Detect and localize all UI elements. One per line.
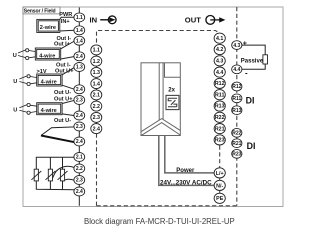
- terminal R22: [214, 112, 225, 122]
- Sensor / Field label: [23, 7, 60, 15]
- svg-text:DI: DI: [246, 95, 255, 105]
- svg-text:R21: R21: [215, 126, 225, 132]
- terminal 2.3 sensor b: [74, 122, 85, 131]
- svg-text:2.1: 2.1: [76, 155, 83, 161]
- terminal 1.4: [91, 79, 102, 89]
- power wire left (N): [159, 136, 215, 186]
- device right terminal column: [214, 33, 225, 203]
- wire sensor column bottom stub: [78, 196, 80, 206]
- wire 2-wire top to 1.1: [60, 17, 75, 19]
- svg-text:R11: R11: [215, 92, 224, 98]
- terminal R11 ext: [232, 94, 242, 103]
- svg-text:R12: R12: [215, 81, 225, 87]
- wire sensor column top stub: [78, 8, 80, 13]
- terminal 2.3 sensor c: [74, 176, 85, 185]
- svg-text:PWR: PWR: [59, 12, 72, 18]
- wire segments sensor column: [78, 22, 80, 187]
- terminal 4.1: [214, 33, 225, 43]
- svg-text:IN: IN: [90, 15, 98, 24]
- terminal 2.2: [91, 101, 102, 111]
- wire top bus to 2.1: [36, 157, 74, 169]
- svg-text:2.3: 2.3: [76, 178, 83, 184]
- svg-text:4.1: 4.1: [216, 36, 223, 42]
- svg-text:2-wire: 2-wire: [40, 25, 56, 31]
- svg-text:R23: R23: [232, 152, 241, 158]
- OUT symbol: [185, 16, 226, 25]
- terminal 2.4: [91, 124, 102, 134]
- svg-text:2.4: 2.4: [76, 54, 83, 60]
- potentiometer wiper arrow: [41, 127, 76, 142]
- outer frame: [23, 7, 283, 207]
- svg-text:OUT: OUT: [185, 16, 201, 25]
- sensor terminal ellipses column: [74, 13, 85, 196]
- terminal 2.3: [91, 112, 102, 122]
- svg-text:R12: R12: [232, 84, 241, 90]
- wire 4-wire3 bottom to 2.4: [62, 114, 75, 116]
- 2-wire transmitter box: [37, 19, 60, 32]
- svg-text:DI: DI: [247, 141, 256, 151]
- wire bottom bus to 2.4: [36, 181, 75, 190]
- terminal 2.4 sensor b: [74, 85, 85, 94]
- RTD resistor R2: [46, 169, 56, 181]
- svg-text:U: U: [13, 79, 17, 85]
- svg-text:1.3: 1.3: [76, 65, 83, 71]
- wire 2.2 to middle tap: [50, 166, 74, 181]
- svg-text:+: +: [243, 41, 247, 48]
- svg-text:L/+: L/+: [216, 171, 224, 177]
- svg-text:4.4: 4.4: [233, 67, 240, 73]
- svg-text:U: U: [13, 108, 17, 114]
- terminal R12 ext: [232, 82, 242, 91]
- svg-text:1.4: 1.4: [93, 81, 100, 87]
- terminal R12: [214, 78, 225, 88]
- terminal R22 ext: [232, 128, 242, 137]
- isolation channel: [158, 63, 160, 121]
- svg-text:1.1: 1.1: [93, 48, 100, 54]
- svg-text:R13: R13: [232, 108, 241, 114]
- terminal 1.3 sensor: [74, 63, 85, 72]
- svg-text:2.4: 2.4: [76, 189, 83, 195]
- U source for 4-wire 3: [13, 103, 37, 114]
- svg-text:1.1: 1.1: [76, 15, 83, 21]
- IN symbol: [90, 15, 117, 24]
- terminal R13 ext: [232, 106, 242, 115]
- terminal 2.4 sensor d: [74, 137, 85, 146]
- 4-wire box 2: [37, 74, 62, 86]
- svg-text:R11: R11: [232, 96, 241, 102]
- svg-text:4.2: 4.2: [216, 47, 223, 53]
- svg-text:Sensor / Field: Sensor / Field: [24, 9, 56, 15]
- svg-text:2.3: 2.3: [93, 115, 100, 121]
- svg-text:R22: R22: [215, 115, 225, 121]
- svg-text:1.4: 1.4: [76, 38, 83, 44]
- terminal 2.4 sensor: [74, 52, 85, 61]
- terminal R21 ext: [232, 139, 242, 148]
- U source for 4-wire 1: [13, 49, 36, 60]
- terminal N/-: [214, 180, 225, 190]
- svg-text:4.4: 4.4: [216, 70, 223, 76]
- svg-text:2.3: 2.3: [76, 98, 83, 104]
- svg-text:1.3: 1.3: [93, 70, 100, 76]
- terminal R23 ext: [232, 149, 242, 158]
- dashed segment R23 to L/+: [219, 146, 221, 168]
- svg-text:R23: R23: [215, 138, 225, 144]
- svg-text:Out U-: Out U-: [54, 118, 71, 124]
- svg-text:R22: R22: [232, 131, 241, 137]
- terminal 1.4 sensor b: [74, 36, 85, 45]
- svg-text:IN+: IN+: [61, 19, 71, 25]
- wire middle branch: [49, 157, 51, 189]
- wire 4-wire1 bottom to 2.4: [61, 57, 75, 60]
- dashed device boundary left+top+bottom: [97, 31, 237, 206]
- svg-text:1.2: 1.2: [93, 59, 100, 65]
- dashed device boundary right vertical: [236, 7, 238, 206]
- terminal 1.3: [91, 67, 102, 77]
- device left terminal column: [91, 45, 102, 134]
- module block U1: [141, 63, 180, 136]
- svg-text:R13: R13: [215, 104, 225, 110]
- top right cell: [165, 63, 181, 78]
- wire 4-wire3 top to 2.3: [62, 100, 75, 103]
- terminal 1.1: [91, 45, 102, 55]
- terminal 2.2 sensor: [74, 164, 85, 173]
- svg-text:Power: Power: [176, 168, 195, 174]
- passive loop wires: [241, 45, 265, 69]
- outer right terminal column: [232, 41, 242, 159]
- svg-text:2.4: 2.4: [76, 139, 83, 145]
- svg-text:4-wire: 4-wire: [41, 79, 57, 85]
- svg-text:4.3: 4.3: [216, 59, 223, 65]
- svg-text:2.4: 2.4: [76, 113, 83, 119]
- terminal R11: [214, 90, 225, 100]
- relay symbol 2x: [166, 87, 179, 109]
- terminal 2.1: [91, 90, 102, 100]
- 4-wire box 1: [35, 48, 60, 60]
- svg-text:2x: 2x: [168, 87, 175, 93]
- wire 4-wire1 top to 1.4: [61, 41, 75, 49]
- RTD resistor network wires: [36, 157, 75, 190]
- power wire right (L): [165, 136, 215, 173]
- svg-text:4-wire: 4-wire: [41, 108, 57, 114]
- terminal 4.4 ext: [232, 65, 242, 74]
- terminal 4.3: [214, 56, 225, 66]
- wire 4-wire2 top to 1.3: [62, 67, 75, 75]
- svg-text:2.1: 2.1: [93, 93, 100, 99]
- terminal 2.4 sensor c: [74, 111, 85, 120]
- terminal 1.2: [91, 56, 102, 66]
- U source for 4-wire 2: [13, 75, 37, 86]
- wire 2.3 to right tap: [63, 179, 75, 181]
- svg-text:2.3: 2.3: [76, 124, 83, 130]
- RTD resistor R1: [31, 169, 41, 181]
- wire 4-wire2 bottom to 2.4: [62, 85, 75, 89]
- svg-text:2.2: 2.2: [93, 104, 100, 110]
- svg-text:1.4: 1.4: [76, 28, 83, 34]
- chevron band: [142, 119, 181, 132]
- svg-text:Block diagram FA-MCR-D-TUI-UI-: Block diagram FA-MCR-D-TUI-UI-2REL-UP: [84, 217, 235, 226]
- svg-text:24V...230V AC/DC: 24V...230V AC/DC: [160, 179, 212, 186]
- wire right branch: [62, 157, 64, 189]
- 4-wire box 3: [37, 103, 62, 115]
- wire 2-wire bottom to 1.4: [60, 29, 75, 32]
- terminal 2.3 sensor: [74, 96, 85, 105]
- svg-text:2.4: 2.4: [76, 87, 83, 93]
- svg-text:Out U-: Out U-: [54, 90, 71, 96]
- svg-text:-: -: [245, 68, 248, 77]
- terminal R13: [214, 101, 225, 111]
- terminal 1.1 sensor: [74, 13, 85, 22]
- terminal 2.4 sensor e: [74, 187, 85, 196]
- svg-text:U: U: [13, 53, 17, 59]
- RTD resistor R3: [58, 169, 68, 181]
- passive resistor: [263, 55, 268, 64]
- terminal 4.3 ext: [232, 41, 242, 50]
- terminal 2.1 sensor: [74, 153, 85, 162]
- terminal R23: [214, 135, 225, 145]
- svg-text:2.2: 2.2: [76, 166, 83, 172]
- svg-text:2.4: 2.4: [93, 126, 100, 132]
- svg-text:Passive: Passive: [241, 58, 264, 64]
- svg-text:PE: PE: [216, 196, 224, 202]
- terminal L/+: [214, 168, 225, 178]
- terminal 4.2: [214, 44, 225, 54]
- svg-text:4.3: 4.3: [233, 43, 240, 49]
- svg-text:4-wire: 4-wire: [39, 53, 55, 59]
- terminal 4.4: [214, 67, 225, 77]
- stub N to PE: [219, 178, 221, 193]
- svg-text:R21: R21: [232, 141, 241, 147]
- terminal 1.4 sensor: [74, 26, 85, 35]
- terminal PE: [214, 193, 225, 203]
- terminal R21: [214, 124, 225, 134]
- svg-text:N/-: N/-: [216, 183, 223, 189]
